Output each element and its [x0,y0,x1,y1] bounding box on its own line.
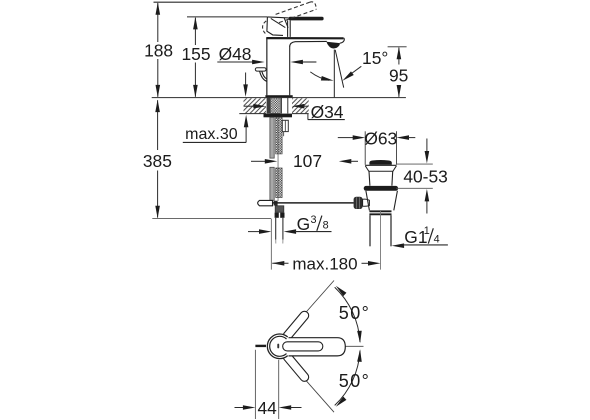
top view: pivot pin [277,344,279,349]
drain knob connector [363,199,370,206]
top view: lever handle horizontal [283,338,346,356]
drain pop-up knob [354,197,363,209]
pop-up transfer rod bullet end [258,200,278,205]
top view: body circle mask [266,333,292,359]
dimension diameter 63 [338,129,416,165]
svg-text:40-53: 40-53 [403,167,447,187]
shank through deck: sleeve [281,98,287,114]
svg-text:155: 155 [181,44,210,64]
drain plug cap [369,160,391,165]
svg-text:8: 8 [323,219,329,231]
dimension 188 [144,2,173,97]
lever cartridge housing [267,17,290,37]
dimension 40-53 [396,139,448,214]
extension line lever rest level [187,16,267,18]
svg-text:188: 188 [144,41,173,61]
15 degree stream lines [334,50,343,98]
drain flange bell [365,165,396,185]
svg-text:max.180: max.180 [292,255,357,274]
supply rod gray (lower part) [270,167,274,200]
dimension max.30 (deck thickness) [183,73,249,144]
extension line top (lever raised tip level) [154,1,302,3]
label diameter 48 with leader arrow [217,44,316,64]
top view: faucet body ring [267,334,287,359]
faucet spout top [266,38,344,43]
svg-text:44: 44 [258,398,278,418]
faucet body inner right edge [289,46,291,96]
drain centerline [380,211,382,270]
lever handle bar (rest position) [289,17,324,21]
svg-text:385: 385 [143,151,172,171]
svg-text:107: 107 [293,151,322,171]
threaded shank below deck (lower part) [276,168,282,198]
threaded shank below deck (upper part) [276,117,282,154]
pop-up rod knob on body [255,68,266,82]
faucet base plate [265,95,292,97]
label diameter 34 with arrows [244,102,345,122]
svg-text:50°: 50° [339,371,370,391]
label G1 1/4 with leader arrow [392,225,448,248]
svg-text:15°: 15° [362,48,388,68]
hose connector block [275,206,284,212]
pop-up horizontal rod [273,202,354,204]
faucet body left edge [266,38,268,96]
dimension 385 [143,100,271,219]
dimension 44 [235,350,302,419]
top view: rotated lever stick upper [281,310,310,342]
top view: pop-up knob tick [255,345,266,347]
deck slab right (hatched) [292,98,309,113]
max.180 extension line left [270,219,272,270]
svg-text:50°: 50° [339,303,370,323]
svg-text:max.30: max.30 [185,126,238,143]
top view: 50 degree ray upper [300,281,334,320]
svg-text:3: 3 [311,214,317,226]
50 degree arc upper [334,284,370,343]
svg-text:95: 95 [389,65,408,85]
svg-text:4: 4 [434,234,440,246]
dimension 155 [181,17,210,98]
dimension max.180 [272,255,381,274]
faucet centerline below deck [277,118,279,201]
drain o-ring [364,186,398,191]
countertop deck top line [152,97,406,99]
15 degree angle arc and label [310,48,388,83]
svg-text:Ø48: Ø48 [219,44,252,64]
top view: lever centerline [345,345,363,347]
faucet spout underside [290,41,327,46]
mounting nut under deck [264,114,293,118]
svg-text:Ø34: Ø34 [311,102,344,122]
svg-text:Ø63: Ø63 [364,129,397,149]
lever handle raised (dashed ghost) [263,2,317,34]
dimension 107 [251,151,358,171]
dimension 95 [388,47,409,98]
deck slab left (hatched) [239,98,266,113]
50 degree arc lower [334,349,370,408]
top view: 50 degree ray lower [300,374,334,413]
drain nut bottom bands [369,211,391,214]
pop-up rod guide fitting [282,120,288,136]
dimension G 3/8 [248,214,332,234]
hose nut [275,213,285,218]
supply rod gray (upper part) [270,117,274,158]
svg-text:1: 1 [424,225,430,237]
aerator [327,42,340,49]
drain tailpipe [370,215,391,246]
shank through deck: dark column [267,98,271,114]
svg-text:G: G [297,214,311,234]
shank through deck: threaded column [271,98,281,114]
drain body [366,191,398,211]
top view: rotated lever stick lower [281,351,310,383]
flexible supply hose [276,218,283,244]
